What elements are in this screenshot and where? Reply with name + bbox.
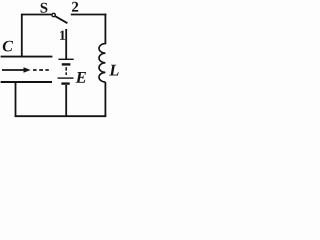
switch S pivot circle xyxy=(52,13,55,16)
battery inter-cell dash upper xyxy=(65,67,67,71)
battery inter-cell dash lower xyxy=(65,72,67,75)
wire middle vertical upper (contact 1 lead) xyxy=(65,29,67,59)
battery E cell1 long plate xyxy=(59,58,74,60)
wire top-right horizontal (contact 2) xyxy=(71,14,107,16)
wire left vertical (top lead of C) xyxy=(21,14,23,57)
inductor L coil xyxy=(99,44,105,82)
field arrow head xyxy=(24,67,31,73)
capacitor C top plate xyxy=(1,56,53,58)
wire bottom-left vertical (bottom lead of C) xyxy=(15,82,17,117)
field arrow shaft xyxy=(2,69,25,71)
switch S blade xyxy=(55,16,67,23)
field arrow dash 1 xyxy=(33,69,37,71)
field arrow dash 2 xyxy=(39,69,43,71)
battery E cell2 short plate xyxy=(61,82,69,84)
capacitor C bottom plate xyxy=(1,81,52,83)
field arrow dash 3 xyxy=(45,69,48,71)
label S xyxy=(41,3,48,13)
wire top-left horizontal xyxy=(21,14,51,16)
label C xyxy=(3,41,13,52)
label E xyxy=(76,72,86,83)
battery E cell2 long plate xyxy=(58,77,74,79)
wire bottom horizontal xyxy=(15,115,107,117)
label L xyxy=(109,65,118,76)
label 1 xyxy=(60,31,65,40)
wire middle vertical lower xyxy=(65,85,67,116)
wire right vertical upper xyxy=(104,14,106,45)
label 2 xyxy=(72,2,78,12)
wire right vertical lower xyxy=(104,82,106,116)
battery E cell1 short plate xyxy=(62,63,71,65)
